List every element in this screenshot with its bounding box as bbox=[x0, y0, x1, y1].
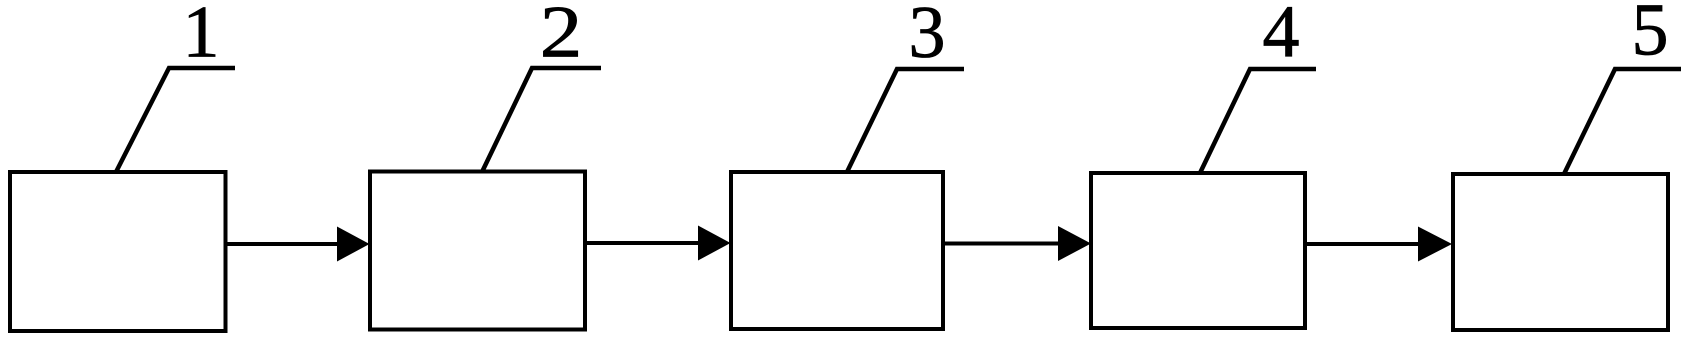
arrow 1to2 bbox=[227, 227, 370, 262]
leader line 5 bbox=[1564, 69, 1681, 174]
arrow 3to4 bbox=[945, 226, 1091, 261]
arrow 2to3 bbox=[587, 226, 731, 261]
svg-text:2: 2 bbox=[540, 0, 583, 73]
block 3 bbox=[731, 172, 943, 329]
leader line 1 bbox=[116, 68, 235, 172]
block 1 bbox=[10, 172, 226, 331]
leader line 4 bbox=[1200, 69, 1316, 173]
block 5 bbox=[1453, 174, 1668, 330]
svg-text:5: 5 bbox=[1632, 0, 1669, 72]
arrow 4to5 bbox=[1307, 227, 1452, 262]
svg-text:1: 1 bbox=[183, 0, 220, 74]
svg-text:3: 3 bbox=[909, 0, 946, 74]
leader line 3 bbox=[847, 69, 964, 172]
leader line 2 bbox=[482, 68, 601, 172]
block 4 bbox=[1091, 173, 1305, 328]
block 2 bbox=[370, 172, 585, 330]
svg-text:4: 4 bbox=[1263, 0, 1300, 73]
